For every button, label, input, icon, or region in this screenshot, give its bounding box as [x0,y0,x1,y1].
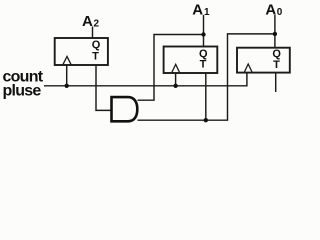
svg-text:A: A [82,13,93,30]
svg-text:A: A [192,2,203,19]
svg-text:pluse: pluse [3,83,42,100]
svg-text:T: T [92,51,99,63]
svg-text:2: 2 [94,18,100,29]
svg-text:T: T [200,59,207,71]
svg-text:A: A [265,2,276,19]
svg-text:1: 1 [204,7,210,18]
svg-text:0: 0 [277,7,283,18]
svg-text:T: T [273,59,280,71]
svg-text:Q: Q [92,39,101,51]
